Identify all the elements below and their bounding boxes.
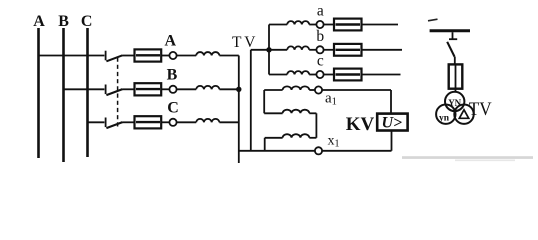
svg-text:C: C [167,99,179,116]
svg-text:TV: TV [469,98,492,119]
svg-text:C: C [81,13,93,30]
svg-text:YN: YN [448,98,461,108]
svg-text:B: B [167,66,178,83]
svg-text:a: a [317,3,324,20]
svg-text:TV: TV [232,34,258,51]
svg-text:KV: KV [346,114,375,135]
svg-text:B: B [58,13,69,30]
svg-text:c: c [317,53,324,70]
svg-text:yn: yn [439,114,450,124]
svg-text:U>: U> [381,115,402,132]
svg-text:A: A [33,13,45,30]
svg-text:b: b [316,28,324,45]
svg-text:A: A [165,33,177,50]
